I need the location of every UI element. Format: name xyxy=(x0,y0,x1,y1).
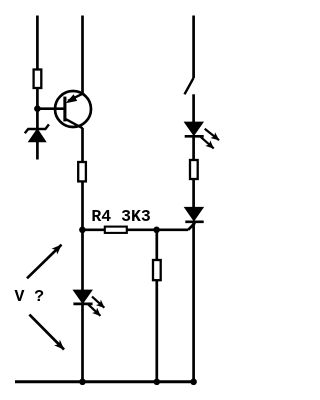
svg-text:R4 3K3: R4 3K3 xyxy=(91,207,151,226)
svg-text:V ?: V ? xyxy=(15,287,45,306)
